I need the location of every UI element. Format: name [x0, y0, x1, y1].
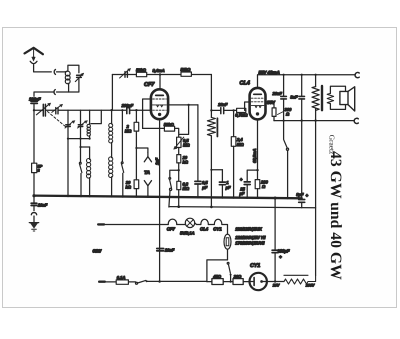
svg-text:50kΩ: 50kΩ [164, 122, 175, 127]
switch S1 waveband [79, 147, 82, 196]
svg-text:CF7: CF7 [167, 227, 176, 232]
svg-text:50V: 50V [267, 100, 276, 105]
potentiometer R6 0.5M volume [174, 132, 184, 149]
svg-text:0,1A: 0,1A [117, 275, 126, 280]
svg-text:+: + [279, 255, 282, 260]
wire tap to switch S3 [170, 170, 179, 177]
node rail A 3nF [301, 74, 303, 76]
wire antenna lead-in down and right to plug [34, 65, 52, 72]
wire heater to lamp [177, 224, 186, 226]
wire rail A left vertical [111, 75, 113, 111]
antenna [25, 48, 43, 64]
ground plug P3 [31, 213, 36, 223]
switch S2 [121, 110, 123, 196]
terminal c anode line [355, 73, 359, 78]
capacitor C17 10nF mains [157, 249, 164, 251]
node rail C B+ line [210, 206, 213, 209]
wire CF7 grid left [143, 99, 151, 128]
wire to trimmer C3 [34, 109, 43, 111]
node speaker line 3nF [301, 119, 303, 121]
wire transformer line down right side [315, 121, 317, 276]
node bus junctions [67, 109, 289, 208]
fuse 0.1A [116, 280, 128, 284]
svg-text:55V 42mA: 55V 42mA [259, 70, 280, 75]
node rail A 20nF [283, 74, 285, 76]
svg-text:50kΩ: 50kΩ [181, 67, 192, 72]
resistor R10 2.4M [231, 110, 236, 196]
resistor R8 0.3M [177, 170, 181, 207]
svg-text:100μF: 100μF [277, 248, 290, 253]
heater CL4 [201, 219, 209, 224]
switch S6 mains [136, 280, 148, 284]
wire grid resistor to CL4 [245, 102, 250, 110]
wire coil frame right side down [69, 77, 79, 92]
svg-text:MΩ: MΩ [183, 143, 190, 148]
rail C B+ distribution [169, 207, 316, 208]
tube CL4 [250, 88, 266, 120]
capacitor C16 10nF ground [31, 196, 37, 211]
resistor R1 2M [134, 110, 139, 148]
capacitor C15 8uF electrolytic [299, 200, 305, 208]
node speaker line 20nF switch [283, 120, 285, 122]
wire CL4 anode [257, 75, 259, 88]
svg-text:65W: 65W [93, 248, 103, 253]
mains line [99, 281, 105, 283]
svg-text:45Ω: 45Ω [212, 274, 221, 279]
svg-text:43 GW und 40 GW: 43 GW und 40 GW [327, 151, 344, 280]
svg-text:CF7: CF7 [144, 82, 155, 88]
svg-text:26Ω: 26Ω [233, 274, 242, 279]
node mains 10nF [158, 280, 160, 282]
coil L3 [87, 147, 91, 196]
svg-text:0,7MΩ: 0,7MΩ [235, 112, 248, 117]
resistor R4 50k anode CF7 [136, 72, 146, 76]
wire speaker line y120.5 [274, 120, 354, 122]
node rail B switch [121, 109, 123, 111]
node rail A primary [315, 74, 317, 76]
capacitor C13 20nF [281, 75, 287, 121]
svg-text:8μF: 8μF [296, 192, 304, 197]
wire coil frame top [68, 65, 79, 73]
tuning capacitor C6 section B [78, 110, 88, 147]
svg-text:CY1: CY1 [250, 263, 260, 269]
wire 1nF line CF7 cathode to bus [159, 119, 161, 196]
svg-text:170/250V,EUVII: 170/250V,EUVII [235, 241, 265, 246]
variable capacitor C1 trimmer on coil [75, 73, 83, 82]
coil L2 top connect [89, 110, 91, 124]
resistor R16 200V dropper [284, 275, 316, 284]
wire selector loop [207, 260, 228, 282]
capacitor C11 1uF [219, 170, 225, 197]
svg-text:μF: μF [201, 185, 207, 190]
dashed gang link [48, 112, 66, 127]
resistor R15 26 ohm [233, 279, 243, 285]
svg-text:TA: TA [144, 170, 150, 176]
wire 10nF heater line [159, 196, 161, 282]
capacitor C12 25uF [244, 170, 257, 197]
svg-text:2: 2 [37, 168, 40, 172]
rail A right segment [258, 74, 355, 76]
svg-text:20nF: 20nF [272, 91, 283, 96]
resistor R12 300 ohm screen [272, 108, 283, 121]
node rail B 2M drop [135, 109, 137, 111]
node pot chain tap [178, 169, 180, 171]
node antenna line to trimmer [33, 109, 35, 111]
capacitor C14 3nF [299, 75, 305, 121]
wire to volume pot top [179, 105, 189, 134]
wire cap A bottom link [68, 138, 90, 140]
rail B grid line y=110 [45, 109, 150, 111]
capacitor C9 0.5uF [195, 181, 201, 196]
svg-text:3nF: 3nF [290, 95, 298, 100]
wire CL4 cathode down [257, 120, 259, 180]
wire coil bottom to frame [68, 83, 70, 92]
wire cap A line to bus [67, 139, 69, 196]
wire heater lead end stub [98, 223, 104, 225]
capacitor C10 16nF coupling [211, 108, 236, 114]
svg-text:200V: 200V [305, 284, 315, 288]
wire heater to thermistor [222, 225, 228, 235]
wire rail A right corner down [210, 75, 212, 111]
svg-text:+: + [306, 193, 309, 198]
svg-text:50kΩ: 50kΩ [136, 67, 147, 72]
antenna coil L1 [65, 71, 70, 84]
heater CF7 [168, 219, 177, 224]
svg-text:16nF: 16nF [218, 102, 228, 107]
svg-text:+: + [240, 177, 243, 182]
resistor R5 50k screen [181, 72, 191, 76]
resistor R9 0.7M grid CL4 [237, 108, 246, 112]
wire antenna line down to EP box [33, 111, 35, 164]
node speaker line primary [314, 119, 316, 121]
resistor R2 30k [134, 148, 139, 196]
wire frame bottom to plug P2 [57, 91, 69, 93]
svg-text:CL4: CL4 [240, 81, 251, 87]
wire heater link [208, 224, 214, 226]
wire lamp to CL4 heater [195, 223, 201, 225]
terminal c speaker line [354, 118, 358, 123]
trimmer capacitor C3 [36, 103, 50, 116]
jack TA lower [144, 181, 151, 196]
node B+ branch [211, 169, 222, 171]
svg-text:110/125V,EUX: 110/125V,EUX [235, 227, 263, 232]
wire plug P2 left and down [34, 92, 54, 96]
svg-text:MΩ: MΩ [183, 186, 190, 191]
svg-text:8,4mA: 8,4mA [153, 68, 165, 73]
svg-text:5V/0,1A: 5V/0,1A [180, 230, 195, 235]
svg-text:10nF: 10nF [165, 248, 175, 253]
node bus antenna [32, 194, 35, 197]
trimmer capacitor C8 on rail A [120, 68, 131, 78]
wire CF7 anode out right [168, 104, 198, 106]
coil L4 oscillator [109, 110, 113, 196]
svg-text:μF: μF [225, 185, 231, 190]
heater wire left [98, 224, 168, 226]
node CF7 anode rail A [159, 73, 161, 75]
wire link to coil L3 [81, 146, 90, 148]
thermistor UR [224, 234, 231, 260]
resistor R3 50k grid [143, 126, 179, 132]
wire plug to coil L1 [57, 71, 66, 73]
svg-text:100pF: 100pF [29, 96, 41, 101]
capacitor C18 100uF [272, 198, 278, 282]
svg-text:20V: 20V [272, 284, 280, 288]
lamp dial [185, 218, 194, 227]
svg-text:μF: μF [239, 191, 245, 196]
zigzag choke L5 [207, 110, 217, 169]
wire 2M to TA jack [136, 148, 148, 152]
svg-text:MΩ: MΩ [125, 129, 132, 134]
tube CF7 [151, 89, 168, 119]
resistor R11 200 ohm cathode [255, 180, 260, 197]
rail A top left segment [112, 74, 211, 76]
jack TA upper [144, 152, 151, 162]
svg-text:CY1: CY1 [213, 227, 222, 232]
node selector mid [230, 281, 232, 283]
output transformer T1 primary [312, 75, 322, 121]
coil L2 [87, 124, 90, 136]
heater CY1 [214, 219, 222, 224]
svg-text:MΩ: MΩ [237, 142, 244, 147]
svg-text:1nF: 1nF [155, 157, 160, 165]
antenna plug P1 [54, 69, 55, 74]
capacitor C7 100pF on rail B [127, 107, 130, 113]
resistor R14 45 ohm [212, 279, 223, 285]
wire CF7 anode [159, 75, 161, 90]
switch S3 mains [169, 178, 172, 208]
node rail B osc coil [110, 109, 112, 111]
ground plug P2 [54, 90, 55, 95]
trimmer capacitor C4 [52, 104, 63, 114]
svg-text:62,5mA: 62,5mA [252, 149, 257, 163]
node cathode 25uF branch [256, 169, 258, 171]
node coupling [187, 104, 189, 106]
wire 8uF drop [301, 121, 303, 199]
output transformer T1 secondary and speaker LS [327, 86, 355, 111]
node rail C pot chain [177, 205, 180, 208]
wire CL4 screen right [266, 102, 275, 108]
switch S5 voltage selector [227, 262, 231, 281]
wire rail B jog tap [91, 110, 101, 123]
node grid CL4 [232, 109, 234, 111]
tube CY1 rectifier [250, 273, 267, 290]
resistor R13 EP box [32, 163, 37, 196]
capacitor C2 100pF antenna series [31, 101, 37, 110]
tuning capacitor C5 section A [65, 110, 75, 138]
ground symbol [29, 223, 38, 231]
wire B+ line to rail C [210, 170, 212, 207]
chassis bus [34, 196, 302, 199]
svg-text:120/160V,EU YII: 120/160V,EU YII [235, 235, 266, 240]
svg-text:kΩ: kΩ [183, 159, 189, 164]
node B+ raw [274, 280, 276, 282]
svg-text:10nF: 10nF [38, 202, 48, 207]
node bus 100uF [274, 197, 277, 200]
svg-text:CL4: CL4 [200, 227, 209, 232]
wire CY1 to junction [267, 281, 284, 283]
svg-text:100pF: 100pF [122, 103, 134, 108]
resistor R7 10k [177, 148, 181, 171]
wire coil L2 bottom [89, 136, 91, 139]
switch S4 tone [284, 121, 289, 197]
wire coupling corner down [197, 105, 199, 181]
svg-text:kΩ: kΩ [126, 185, 132, 190]
